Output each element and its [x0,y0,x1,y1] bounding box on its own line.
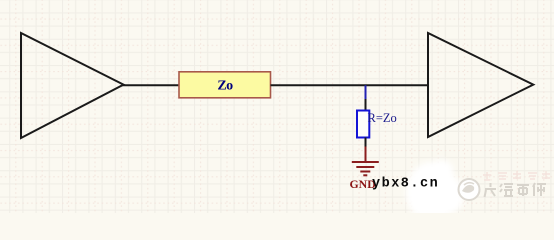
resistor R (termination) [357,99,369,148]
resistor Zo [179,72,271,98]
ground [352,147,379,176]
svg-text:Zo: Zo [217,79,233,94]
watermark white blob [406,160,464,222]
receiver U2 [428,33,533,137]
svg-text:ybx8.cn: ybx8.cn [372,176,439,191]
watermark faint pink text [483,171,550,180]
watermark brand text [485,183,547,197]
svg-text:R=Zo: R=Zo [368,111,397,125]
buffer U1 driver [21,33,124,138]
wire [122,84,179,86]
watermark logo circle [459,179,480,200]
wire [271,84,429,86]
wire (blue net stub at node) [365,85,367,99]
